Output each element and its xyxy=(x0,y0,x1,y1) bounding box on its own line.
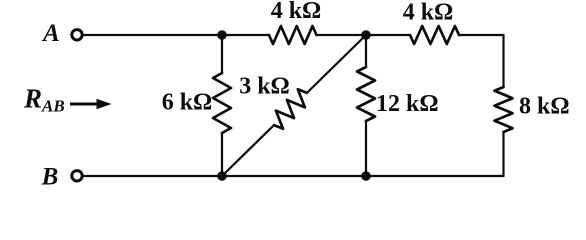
wire 3k upper diagonal lead xyxy=(307,35,366,93)
wire 12k top lead xyxy=(365,35,367,67)
resistor R6 8 kOhm (vertical right) xyxy=(495,87,513,132)
svg-text:4 kΩ: 4 kΩ xyxy=(403,0,454,26)
resistor R2 4 kOhm (right horizontal) xyxy=(410,26,459,44)
wire node2 to top-right corner xyxy=(459,34,504,36)
arrow R_AB xyxy=(70,103,99,106)
node junction top-mid xyxy=(361,30,371,40)
svg-text:4 kΩ: 4 kΩ xyxy=(271,0,322,24)
node junction bottom-mid xyxy=(361,171,371,181)
resistor R1 4 kOhm (left horizontal) xyxy=(269,26,317,44)
svg-text:B: B xyxy=(41,164,59,191)
wire right vertical below 8k xyxy=(502,132,504,176)
wire 12k bottom lead xyxy=(365,121,367,176)
wire right vertical above 8k xyxy=(502,35,504,87)
wire bottom from B to right corner xyxy=(84,175,504,177)
resistor R3 6 kOhm (vertical) xyxy=(213,73,231,133)
svg-text:A: A xyxy=(41,20,60,47)
svg-text:6 kΩ: 6 kΩ xyxy=(162,90,213,116)
wire 6k top lead xyxy=(221,35,223,73)
resistor R4 3 kOhm (diagonal) xyxy=(274,89,307,129)
svg-text:12 kΩ: 12 kΩ xyxy=(376,91,439,117)
svg-text:8 kΩ: 8 kΩ xyxy=(519,94,570,120)
terminal A xyxy=(72,30,82,40)
node junction top-left xyxy=(217,30,227,40)
wire 3k lower diagonal lead xyxy=(222,125,274,176)
svg-text:3 kΩ: 3 kΩ xyxy=(239,74,290,100)
wire node1 to node2 (right of 4k #1) xyxy=(317,34,411,36)
wire 6k bottom lead xyxy=(221,133,223,176)
wire top from A to node 1 xyxy=(84,34,269,36)
resistor R5 12 kOhm (vertical) xyxy=(357,67,375,121)
terminal B xyxy=(72,171,82,181)
node junction bottom-left xyxy=(217,171,227,181)
